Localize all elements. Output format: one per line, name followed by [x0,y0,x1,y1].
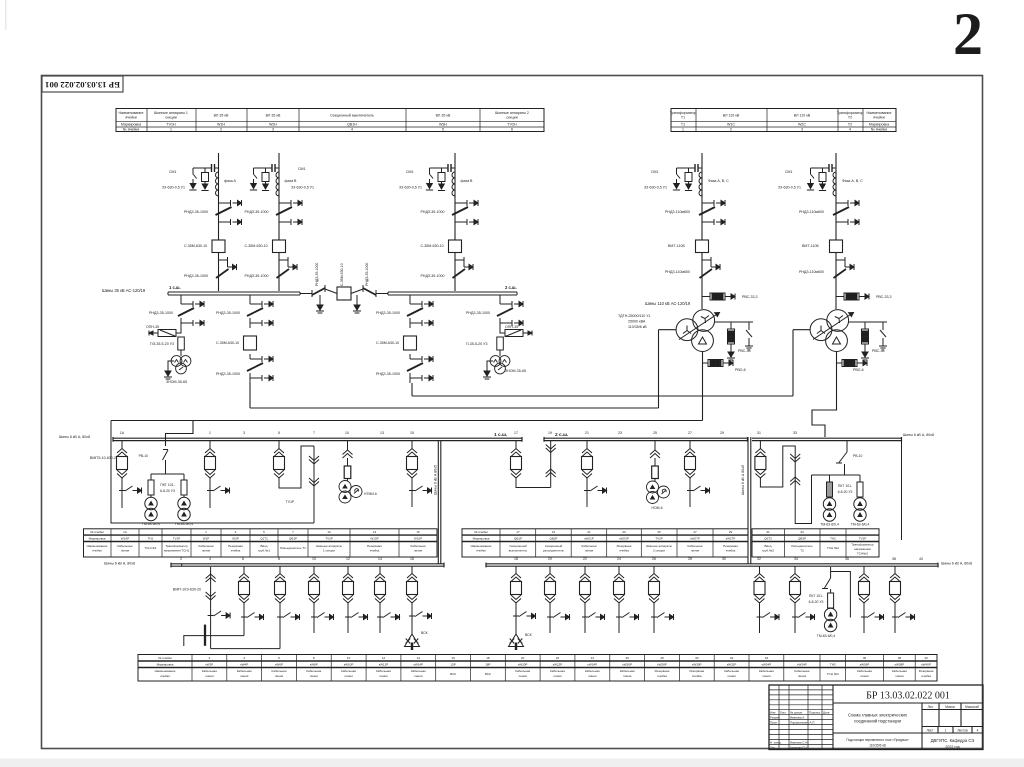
svg-text:СМ1: СМ1 [651,170,659,174]
svg-text:СМ1: СМ1 [169,170,177,174]
feeder cell 1 breaker [205,441,230,508]
svg-text:ТН1: ТН1 [148,537,154,541]
svg-text:W3Р: W3Р [232,537,239,541]
ТСН3 fuse ПКТ 101 [828,593,834,608]
wire T2 mid winding riser [793,330,810,396]
svg-text:РВ-10: РВ-10 [853,454,863,458]
svg-text:34: 34 [794,557,798,561]
surge arrester РВО-6 tap of T2 [837,362,843,364]
svg-text:27: 27 [693,530,697,534]
feeder cell 6 breaker [239,566,264,636]
svg-text:ВМПЭ-10-630-20: ВМПЭ-10-630-20 [90,456,118,460]
wire T1 feeder down to node [249,383,251,408]
svg-text:кW34Р: кW34Р [797,663,806,667]
svg-text:ТСН №1: ТСН №1 [145,546,157,550]
capacitor coupling (W2C) [826,164,836,172]
svg-text:РНДЗ-35-1000: РНДЗ-35-1000 [184,210,208,214]
wire [180,350,182,356]
disconnector РНДЗ-35-1000 (lower, W1H) [216,257,237,282]
svg-text:4: 4 [977,729,979,733]
transformer T2 ТДТН-25000/110 [810,310,853,352]
svg-text:РНДЗ-35-1000: РНДЗ-35-1000 [315,263,319,286]
disconnector РНДЗ-35-1000 (lower T1) [247,354,273,383]
mid table section 2 grid [462,529,748,557]
svg-text:линия: линия [205,674,214,678]
svg-text:НОМ-6: НОМ-6 [652,506,663,510]
Y winding mark (MV) [817,326,825,334]
bus riser section1 (double) [438,440,441,564]
feeder cell 10 breaker [309,566,334,633]
svg-text:кW10Р: кW10Р [344,663,353,667]
feeder cell 34 breaker [790,566,815,633]
surge arrester РВС-33,3 tap (W1C) [702,296,710,298]
svg-text:выключатель: выключатель [509,549,528,553]
svg-text:ТV1Н: ТV1Н [166,123,176,127]
svg-text:Лист: Лист [927,729,934,733]
svg-text:Подпись: Подпись [809,711,821,715]
wire [499,350,501,356]
svg-text:ВМП-10Э-630-20: ВМП-10Э-630-20 [173,588,201,592]
svg-text:ячейка: ячейка [370,549,380,553]
svg-text:Климова Г.Н.: Климова Г.Н. [790,745,808,749]
svg-text:Наименование: Наименование [471,544,492,548]
svg-text:ТV2Р: ТV2Р [655,537,663,541]
svg-text:36: 36 [863,656,867,660]
svg-text:ЗЗ-630-0,5 У1: ЗЗ-630-0,5 У1 [778,186,801,190]
svg-text:Кабельная: Кабельная [411,669,426,673]
svg-text:кW32Р: кW32Р [727,663,736,667]
svg-text:кW30Р: кW30Р [692,663,701,667]
ТСН1 disconnector РВ-10 [163,450,169,475]
feeder cell 18 breaker + ВСК [509,566,536,650]
capacitor coupling (W1C) [692,164,702,172]
branch W2H symbols [245,164,315,282]
svg-text:W1С: W1С [727,123,735,127]
breaker box QB1H [337,287,351,300]
svg-text:ПКТ 101-: ПКТ 101- [838,484,852,488]
bus riser section2/right (double) [748,437,751,564]
surge arrester ОПН-35 [149,328,181,337]
svg-text:Секционный выключатель: Секционный выключатель [330,114,374,118]
svg-text:РВО-6: РВО-6 [735,368,746,372]
svg-text:Шины 6 кВ А, 80х8: Шины 6 кВ А, 80х8 [104,562,135,566]
capacitor C coupling W1H [209,164,219,172]
svg-text:ТМ-63-6/0,4: ТМ-63-6/0,4 [820,523,839,527]
left page edge line [5,0,7,30]
svg-text:5: 5 [442,128,444,132]
svg-text:линия: линия [860,674,869,678]
feeder cell 14 breaker [375,566,400,633]
svg-text:10: 10 [347,656,351,660]
svg-text:6-8-20 У3: 6-8-20 У3 [160,489,175,493]
svg-text:РНДЗ-110м600: РНДЗ-110м600 [665,210,690,214]
ТСН2 disconnector РВ-10 [836,441,847,475]
svg-text:14: 14 [417,656,421,660]
wire T2 feeder down to node [411,383,413,396]
svg-text:8: 8 [278,557,280,561]
svg-text:ТСН №3: ТСН №3 [827,672,839,676]
feeder cell 26 breaker [649,566,674,633]
svg-text:ОПН-35: ОПН-35 [505,325,518,329]
svg-text:ячейки: ячейки [92,549,102,553]
feeder 19 sectional link [546,441,556,488]
svg-text:ОПН-35: ОПН-35 [146,325,159,329]
surge arrester group СМ1 (W2H) [250,168,272,191]
ground left of QB1H [319,295,321,300]
svg-text:W15Р: W15Р [414,537,422,541]
disconnector РНДЗ-110м600 (upper W2C) [833,198,859,227]
svg-text:110/35/6 кВ: 110/35/6 кВ [628,325,647,329]
svg-text:линия: линия [414,674,423,678]
svg-text:2022 год: 2022 год [945,745,960,749]
title block main dividers [833,685,983,750]
svg-text:№ ячейки: № ячейки [158,656,172,660]
svg-text:Шинные аппараты: Шинные аппараты [646,544,672,548]
svg-text:32: 32 [730,656,734,660]
svg-text:25: 25 [653,431,657,435]
svg-text:16: 16 [410,557,414,561]
wire [249,295,251,299]
svg-text:Кабельная: Кабельная [724,669,739,673]
disconnector РНДЗ-35-1000 (TV2H) [497,299,523,328]
feeder cell 22 breaker [580,566,605,633]
svg-text:ВМТ-110Б: ВМТ-110Б [802,244,820,248]
feeder cell 12 breaker [343,566,368,633]
svg-text:С-35М-630-10: С-35М-630-10 [184,244,207,248]
wire 35kV link T1 [250,407,659,409]
svg-text:1: 1 [682,128,684,132]
svg-text:Шины 6 кВ А 80х5: Шины 6 кВ А 80х5 [434,465,438,495]
vertical labels of sectionalizer [315,263,369,286]
svg-text:25: 25 [657,530,661,534]
svg-text:21: 21 [587,530,591,534]
feeder cell 17 breaker [511,441,551,488]
svg-text:Наименование: Наименование [119,111,144,115]
cable screen bar [204,625,206,646]
svg-text:Шинные аппараты 2: Шинные аппараты 2 [495,111,529,115]
svg-text:QВ1Р: QВ1Р [289,537,297,541]
arrester bank right of T1 [715,322,753,360]
svg-text:ячейки: ячейки [873,116,884,120]
svg-text:19: 19 [552,530,556,534]
svg-text:труб.№2: труб.№2 [762,549,774,553]
svg-text:секции: секции [506,116,517,120]
svg-text:Шины 6 кВ А, 80х8: Шины 6 кВ А, 80х8 [903,433,934,437]
svg-text:ВЛ 35 кВ: ВЛ 35 кВ [436,114,451,118]
disconnector blade left (QB1H) [311,290,313,297]
svg-text:РНДЗ-35-1000: РНДЗ-35-1000 [376,311,400,315]
svg-text:РНДЗ-110м600: РНДЗ-110м600 [799,210,824,214]
svg-text:РНДЗ-35-1000: РНДЗ-35-1000 [421,274,445,278]
svg-text:БР 13.03.02.022 001: БР 13.03.02.022 001 [45,80,120,90]
feeder cell 40 breaker [890,566,915,633]
svg-text:Подстанция переменного тока «П: Подстанция переменного тока «Придача» [846,738,909,742]
svg-text:21: 21 [585,431,589,435]
svg-text:30: 30 [695,656,699,660]
svg-text:ТМ-63-6/0,4: ТМ-63-6/0,4 [851,523,870,527]
svg-text:РНДЗ-35-1000: РНДЗ-35-1000 [245,210,269,214]
rotated stamp box top-left [42,76,123,92]
svg-text:ТМ-63-6/0,4: ТМ-63-6/0,4 [175,522,194,526]
svg-text:Шины 6 кВ А 80х5: Шины 6 кВ А 80х5 [741,465,745,495]
svg-text:РНДЗ-110м600: РНДЗ-110м600 [799,270,824,274]
surge arrester ОПН-35 (right) [500,328,532,337]
svg-text:ТН2: ТН2 [830,537,836,541]
svg-text:Масштаб: Масштаб [965,705,979,709]
branch W3H symbols [399,164,478,282]
branch W1H symbols [162,164,242,282]
delta winding mark [699,337,707,344]
svg-text:Маркировка: Маркировка [157,663,174,667]
svg-text:ВСК: ВСК [525,633,532,637]
svg-text:разъединитель: разъединитель [543,549,565,553]
top-left table text [119,111,529,132]
svg-text:ЗЗ-630-0,5 У1: ЗЗ-630-0,5 У1 [399,186,422,190]
svg-text:кW8Р: кW8Р [310,663,318,667]
svg-text:напряжения: напряжения [854,547,871,551]
arrester bank right of T2 [849,322,887,360]
svg-text:Т1: Т1 [681,123,685,127]
feeder cell 32 breaker [754,566,779,633]
svg-text:С-35М-630-10: С-35М-630-10 [421,244,444,248]
wave trap coil Фаза А,В,С (W2C) [833,172,836,196]
mid table section 1 grid [84,529,438,557]
surge arrester group СМ1 (W1C) [673,168,695,191]
svg-text:Резервная: Резервная [367,544,382,548]
svg-text:17: 17 [516,530,520,534]
wire [409,295,411,299]
svg-text:ТСН№2: ТСН№2 [857,552,868,556]
svg-text:РНДЗ-35-1000: РНДЗ-35-1000 [149,311,173,315]
svg-text:СМ1: СМ1 [406,170,414,174]
svg-text:Кабельная: Кабельная [620,669,635,673]
svg-text:кW28Р: кW28Р [657,663,666,667]
breaker ВМТ-110Б (W1C) [696,240,709,253]
disconnector РНДЗ-35-1000 (lower T2) [407,354,433,383]
voltage transformer НОМ-6 [647,481,670,504]
svg-text:QВ1Н: QВ1Н [347,123,357,127]
breaker С-35М-630-10 (T1 feeder) [244,336,257,350]
svg-text:кW14Р: кW14Р [414,663,423,667]
svg-text:W1Н: W1Н [217,123,225,127]
svg-text:10: 10 [327,530,331,534]
svg-text:Кабельная: Кабельная [892,669,907,673]
svg-text:РВС-35: РВС-35 [872,349,884,353]
capacitor C coupling W3H [445,164,455,172]
svg-text:кW26Р: кW26Р [622,663,631,667]
svg-text:15: 15 [416,530,420,534]
delta winding mark [833,337,841,344]
svg-text:1 секции: 1 секции [323,549,335,553]
svg-text:Резервная: Резервная [228,544,243,548]
svg-text:ТН3: ТН3 [830,663,836,667]
transformer ТМ-63-6/0,4 (ТСН1 left) [145,497,157,520]
svg-text:ячейки: ячейки [125,116,136,120]
svg-text:7: 7 [313,431,315,435]
svg-text:Маркировка: Маркировка [473,537,490,541]
svg-text:12: 12 [382,656,386,660]
wire sectionalizer left link [300,293,312,295]
wave trap coil фаза В [452,172,455,196]
svg-text:W1АР: W1АР [121,537,130,541]
svg-text:6-8-20 У3: 6-8-20 У3 [809,600,824,604]
svg-text:24: 24 [591,656,595,660]
svg-text:ВМТ-110Б: ВМТ-110Б [668,244,686,248]
svg-text:2 с.ш.: 2 с.ш. [505,285,517,290]
svg-text:2: 2 [180,557,182,561]
busbar 6kV section 1 [113,437,522,442]
svg-text:Кабельная: Кабельная [376,669,391,673]
svg-text:20: 20 [521,656,525,660]
svg-text:2 секции: 2 секции [653,549,665,553]
VT feeder TV2H (right, mirrored) [466,295,532,379]
svg-text:Резервная: Резервная [919,669,934,673]
Y winding mark (HV) [701,316,709,324]
svg-text:Резервная: Резервная [617,544,632,548]
wire ТСН3 side link [831,572,851,618]
svg-text:Схема главных электрических: Схема главных электрических [848,713,908,718]
svg-text:Шинные аппараты 1: Шинные аппараты 1 [154,111,188,115]
svg-text:14: 14 [378,557,382,561]
svg-text:линия: линия [588,674,597,678]
svg-text:№ ячейки: № ячейки [474,530,488,534]
svg-text:кW34Р: кW34Р [762,663,771,667]
svg-text:Кабельная: Кабельная [341,669,356,673]
svg-text:фаза В: фаза В [285,179,298,183]
Y winding mark (HV) [835,316,843,324]
svg-text:Кабельная: Кабельная [688,544,703,548]
svg-text:Лит.: Лит. [928,705,934,709]
svg-text:Кабельная: Кабельная [515,669,530,673]
svg-text:Трансформатор: Трансформатор [851,543,874,547]
svg-text:ВЛ 35 кВ: ВЛ 35 кВ [266,114,281,118]
svg-text:10: 10 [345,431,349,435]
section 1 cabinet outline [111,421,314,524]
svg-text:кW27Р: кW27Р [726,537,735,541]
svg-text:Иванова С.Н.: Иванова С.Н. [790,740,808,744]
svg-text:W1Р: W1Р [203,537,210,541]
svg-text:ТДТН-25000/110 У1: ТДТН-25000/110 У1 [618,314,651,318]
breaker С-35М-630-10 (T2 feeder) [404,336,417,350]
svg-text:РНДЗ-35-1000: РНДЗ-35-1000 [184,274,208,278]
mid table transformer side grid [752,529,879,557]
disconnector РНДЗ-110м600 (lower W2C) [834,257,855,282]
svg-text:1 с.ш.: 1 с.ш. [494,432,507,438]
svg-text:линия: линия [895,674,904,678]
svg-text:110/35/6 кВ: 110/35/6 кВ [869,744,886,748]
busbar 35kV section 2 [388,292,517,295]
svg-text:ЗЗ-630-0,5 У1: ЗЗ-630-0,5 У1 [644,186,667,190]
svg-text:ячейка: ячейка [231,549,241,553]
transformer T2 35kV feeder (right) [376,295,433,383]
surge arrester РВО-6 tap of T1 [703,362,709,364]
svg-text:40: 40 [924,656,928,660]
svg-text:6: 6 [242,557,244,561]
breaker С-35М-630-10 (W1H) [212,240,225,253]
svg-text:линия: линия [202,549,211,553]
transformer ТМ-63-6/0,4 (ТСН2 left) [823,498,835,521]
svg-text:34: 34 [765,656,769,660]
top-left cell table grid [116,109,544,132]
svg-text:ТV1Р: ТV1Р [173,537,181,541]
svg-text:24: 24 [617,557,621,561]
tap-changer arrow T1 [679,313,720,340]
svg-text:25000 кВА: 25000 кВА [628,320,646,324]
disconnector РНДЗ-35-1000 (upper T2) [407,299,433,328]
node stub cell 2 [181,564,183,566]
mid table 1 text [87,530,426,553]
svg-text:БР 13.03.02.022 001: БР 13.03.02.022 001 [866,691,950,702]
svg-text:кW27Р: кW27Р [690,537,699,541]
wave trap coil Фаза А,В,С [699,172,702,196]
svg-text:Пров.: Пров. [770,721,778,725]
svg-text:кW20Р: кW20Р [518,663,527,667]
svg-text:23: 23 [618,431,622,435]
svg-text:П-35-5-20 У3: П-35-5-20 У3 [466,342,487,346]
wire incoming line W1H [218,153,220,291]
VT feeder TV1H (left) [146,295,204,384]
svg-text:ВЛ 110 кВ: ВЛ 110 кВ [723,114,740,118]
svg-text:26: 26 [626,656,630,660]
svg-text:линия: линия [762,674,771,678]
svg-text:РНДЗ-35-1000: РНДЗ-35-1000 [245,274,269,278]
svg-text:Кабельная: Кабельная [411,544,426,548]
svg-text:QВЗР: QВЗР [798,537,806,541]
svg-text:кW12Р: кW12Р [379,663,388,667]
svg-text:Трансформатор: Трансформатор [670,111,697,115]
branch W2C symbols [778,164,891,300]
svg-text:38: 38 [892,557,896,561]
wire [830,607,832,610]
wire incoming line W2C 110kV [835,153,837,309]
svg-text:Наименование: Наименование [87,544,108,548]
svg-text:3: 3 [243,431,245,435]
svg-text:ВСК: ВСК [450,672,456,676]
svg-text:линия: линия [275,674,284,678]
svg-text:QВ2Р: QВ2Р [549,537,557,541]
feeder cell 1А breaker [117,441,142,508]
bus labels [59,432,934,495]
ТV1Р drawout link [309,446,319,523]
svg-text:соединений подстанции: соединений подстанции [854,719,902,724]
svg-text:33: 33 [793,431,797,435]
svg-text:Кабельная: Кабельная [794,669,809,673]
svg-text:W13Р: W13Р [370,537,378,541]
svg-text:36: 36 [845,557,849,561]
svg-text:Иванова А.: Иванова А. [790,716,805,720]
VT feeder 25: fuse [650,441,660,481]
voltage transformer НТМИ-6 [339,481,362,504]
svg-text:ячейка: ячейка [921,674,931,678]
svg-text:линия: линия [379,674,388,678]
wire incoming line W2H [278,153,280,291]
disconnector РНДЗ-35-1000 (upper, W2H) [276,198,302,227]
svg-text:фаза А: фаза А [224,179,237,183]
svg-text:28: 28 [688,557,692,561]
svg-text:23: 23 [622,530,626,534]
right cabinet outline [901,441,903,540]
svg-text:линия: линия [585,549,594,553]
busbar 35kV section 1 [168,292,300,295]
surge arrester group СМ1 (W1H) [189,168,211,191]
feeder cell 38 breaker [859,566,884,633]
busbar 6kV lower section 2 [486,563,938,568]
svg-text:18: 18 [514,557,518,561]
mid table 3 text [762,530,874,556]
svg-text:линия: линия [727,674,736,678]
feeder cell 27 breaker [685,441,710,507]
svg-text:40: 40 [919,557,923,561]
